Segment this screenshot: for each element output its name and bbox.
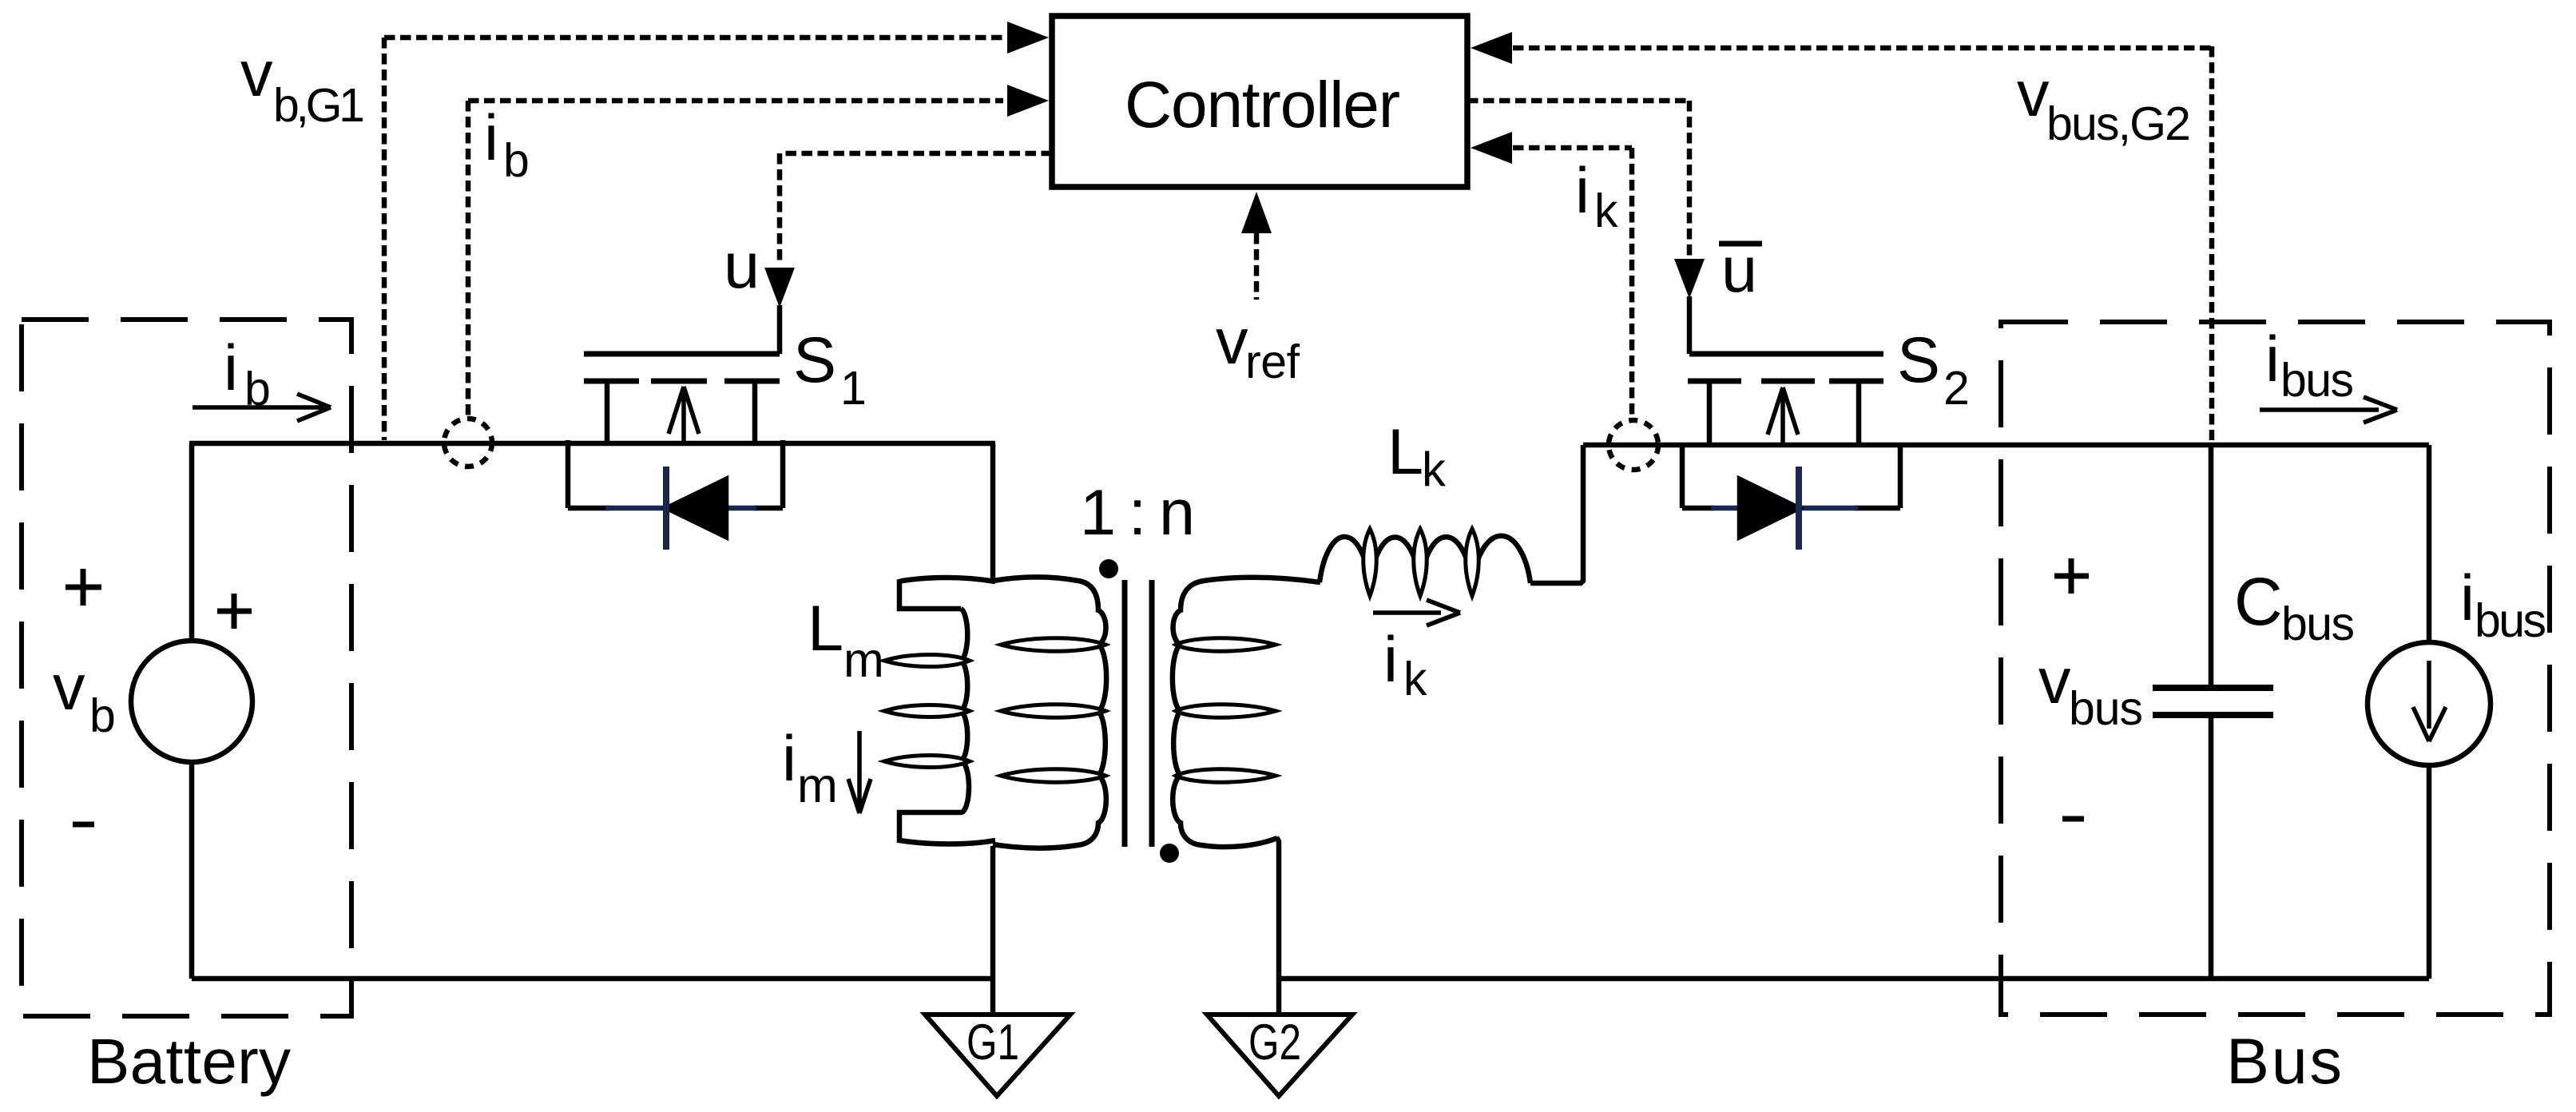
- svg-text:Bus: Bus: [2226, 1026, 2342, 1098]
- wire Lk to S2 rail: [1530, 445, 1583, 583]
- svg-text:v: v: [2038, 645, 2071, 717]
- bus box: [2001, 322, 2550, 1015]
- secondary dot: [1160, 844, 1179, 863]
- svg-text:S: S: [793, 324, 836, 396]
- svg-text:bus: bus: [2475, 594, 2546, 647]
- gate drive line u: [780, 153, 1052, 265]
- leakage inductance Lk coil: [1320, 536, 1530, 583]
- svg-text:G1: G1: [966, 1015, 1019, 1070]
- svg-text:m: m: [843, 633, 884, 687]
- svg-text:k: k: [1594, 185, 1618, 237]
- Lk teardrop 3: [1466, 529, 1479, 596]
- Lk teardrop 1: [1363, 529, 1377, 596]
- svg-text:bus: bus: [2280, 354, 2354, 407]
- svg-text:C: C: [2234, 564, 2283, 639]
- reference input vref: [1254, 233, 1260, 300]
- svg-text:b,G1: b,G1: [273, 79, 365, 132]
- ground G1: [990, 846, 996, 1015]
- svg-text:1: 1: [840, 362, 867, 415]
- Lm leaf 1: [884, 655, 970, 667]
- voltage source vb: [131, 641, 252, 762]
- transformer core: [1125, 580, 1152, 847]
- wire bottom rail right: [1278, 976, 2429, 982]
- capacitor Cbus: [2209, 446, 2214, 685]
- label - battery: [73, 822, 94, 828]
- current source ibus: [2368, 642, 2491, 765]
- svg-text:i: i: [2460, 562, 2475, 634]
- svg-text:S: S: [1897, 324, 1940, 396]
- label + source: [217, 594, 252, 629]
- svg-text:ref: ref: [1245, 336, 1300, 388]
- svg-text:k: k: [1422, 443, 1447, 496]
- wire top rail left: [189, 441, 995, 447]
- wire bottom rail left: [192, 976, 995, 982]
- svg-text:L: L: [808, 593, 843, 665]
- battery box: [22, 320, 351, 1016]
- current probe circle ik: [1609, 420, 1658, 470]
- controller box U1: [1052, 16, 1467, 187]
- svg-text:b: b: [503, 134, 530, 187]
- svg-text:i: i: [1575, 155, 1590, 227]
- dashed feedback line ib: [468, 101, 1003, 416]
- secondary leaf 3: [1176, 769, 1276, 783]
- svg-text:v: v: [53, 652, 85, 724]
- primary dot: [1099, 559, 1118, 578]
- svg-text:bus: bus: [2281, 598, 2355, 650]
- current arrow im: [848, 731, 871, 813]
- svg-text:i: i: [484, 102, 498, 174]
- svg-text:m: m: [797, 758, 838, 812]
- Lk teardrop 2: [1414, 529, 1427, 596]
- current arrow ib: [193, 394, 331, 421]
- svg-text:bus: bus: [2069, 682, 2143, 735]
- svg-text:Battery: Battery: [87, 1026, 291, 1097]
- svg-text:L: L: [1387, 416, 1423, 488]
- svg-text:1 : n: 1 : n: [1080, 477, 1195, 549]
- svg-text:Controller: Controller: [1125, 69, 1400, 141]
- dashed feedback line vbus,G2: [1513, 46, 2212, 440]
- svg-text:b: b: [89, 689, 116, 742]
- primary leaf 3: [1001, 769, 1105, 783]
- svg-text:G2: G2: [1248, 1015, 1301, 1070]
- transistor S1 gate: [584, 351, 780, 357]
- transformer T1 secondary winding: [1173, 578, 1320, 847]
- secondary leaf 2: [1176, 705, 1276, 718]
- svg-text:bus,G2: bus,G2: [2046, 97, 2191, 150]
- svg-text:u: u: [724, 230, 760, 302]
- svg-text:k: k: [1403, 653, 1427, 705]
- transistor S2 gate: [1689, 351, 1883, 357]
- gate drive line ubar: [1467, 101, 1689, 257]
- svg-text:v: v: [2017, 58, 2050, 130]
- svg-text:i: i: [2265, 324, 2280, 395]
- body diode D2: [1682, 443, 1900, 508]
- current arrow ibus: [2260, 397, 2397, 423]
- Lm leaf 3: [884, 756, 970, 768]
- Lm leaf 2: [884, 705, 970, 717]
- secondary leaf 1: [1176, 638, 1276, 652]
- Lm coil: [961, 609, 969, 812]
- magnetizing inductance Lm bracket: [899, 578, 995, 609]
- wire transformer secondary to G2: [1276, 837, 1279, 1015]
- label + bus: [2054, 558, 2089, 594]
- svg-text:v: v: [1216, 306, 1248, 378]
- wire S1 to transformer: [990, 443, 996, 583]
- transformer T1 primary winding: [993, 577, 1106, 848]
- svg-text:2: 2: [1943, 362, 1970, 415]
- label + battery: [65, 569, 101, 606]
- ground G2: [1207, 1015, 1352, 1096]
- dashed feedback line ik: [1513, 148, 1632, 417]
- svg-text:i: i: [224, 332, 238, 404]
- primary leaf 2: [1001, 705, 1105, 718]
- svg-text:v: v: [240, 38, 273, 110]
- primary leaf 1: [1001, 638, 1105, 652]
- current arrow ik: [1373, 600, 1460, 625]
- svg-text:i: i: [1383, 624, 1398, 696]
- body diode D1: [568, 440, 783, 508]
- svg-text:i: i: [782, 723, 796, 795]
- dashed feedback line vb,G1: [384, 38, 1003, 440]
- label - bus: [2062, 816, 2084, 822]
- current probe circle ib: [444, 419, 492, 467]
